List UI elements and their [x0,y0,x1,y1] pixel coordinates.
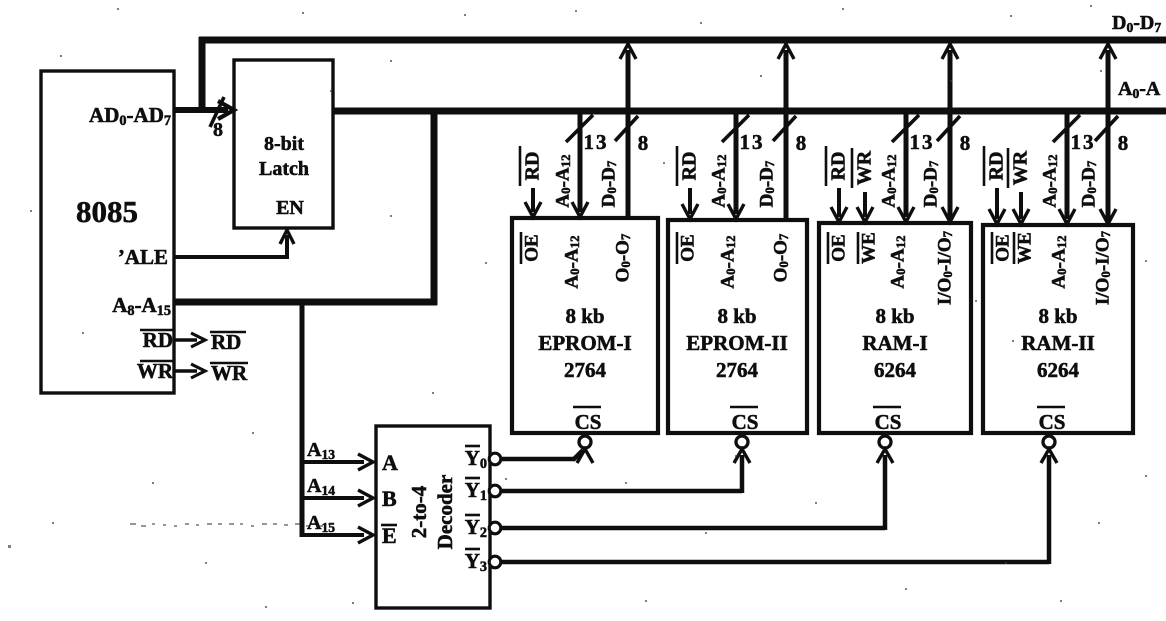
net label A15 [307,512,335,535]
svg-text:EPROM-II: EPROM-II [686,331,788,355]
svg-text:8: 8 [638,131,649,155]
net label A0-A12 wire of RAM-II [1039,154,1060,207]
svg-text:EN: EN [276,197,304,219]
svg-text:8 kb: 8 kb [565,304,604,328]
pin CS inversion bubble of RAM-I [879,436,891,448]
pin WE of RAM-I [858,232,879,264]
svg-text:WE: WE [1014,232,1035,264]
svg-text:RD: RD [522,152,544,181]
wire D0-D7 from EPROM-I to data bus [620,44,636,218]
pin I/O0-I/O7 of RAM-I [934,230,955,305]
svg-text:CS: CS [575,410,602,434]
pin Y1 output label of decoder [465,478,487,504]
wire A0-A12 from address bus into RAM-I [898,114,914,222]
svg-text:RD: RD [211,330,241,354]
svg-text:WR: WR [137,359,174,383]
net label RD of RAM-I [826,146,850,186]
svg-text:OE: OE [828,234,849,261]
pin Y3 inversion bubble [489,556,501,568]
svg-text:AD0-AD7: AD0-AD7 [89,103,171,129]
CPU U1 8085 [41,71,174,393]
pin A0-A12 of RAM-I [887,235,908,288]
svg-text:2-to-4: 2-to-4 [407,485,431,538]
pin A0-A12 of EPROM-I [561,235,582,288]
svg-text:WE: WE [858,232,879,264]
svg-text:8085: 8085 [76,194,138,229]
net label WR of RAM-I [852,148,876,188]
data bus D0-D7 [199,37,1166,113]
wire RD into OE of EPROM-I [525,188,541,217]
bus width slash 13 on A0-A12 of RAM-I [892,115,935,154]
net label RD of RAM-II [984,146,1008,186]
memory chip RAM-II 6264 [983,225,1133,433]
pin Y0 inversion bubble [489,453,501,465]
pin WE of RAM-II [1014,232,1035,264]
svg-text:RAM-II: RAM-II [1021,331,1095,355]
memory chip EPROM-II 2764 [668,220,807,433]
wire WR into WE of RAM-II [1013,192,1029,224]
svg-text:2764: 2764 [716,358,759,382]
svg-text:8: 8 [213,119,223,141]
pin CS of EPROM-II [730,407,758,434]
wire A0-A12 from address bus into EPROM-I [572,114,588,217]
svg-text:O0-O7: O0-O7 [770,233,791,282]
svg-text:CS: CS [1039,410,1066,434]
pin O0-O7 of EPROM-II [770,233,791,282]
svg-text:D0-D7: D0-D7 [598,160,619,207]
svg-text:8: 8 [960,131,971,155]
decoder U3 2-to-4 [376,426,490,608]
svg-text:CS: CS [875,410,902,434]
net label A13 [307,439,335,462]
pin I/O0-I/O7 of RAM-II [1092,230,1113,305]
wire Y3 to CS of RAM-II [500,449,1057,564]
svg-text:I/O0-I/O7: I/O0-I/O7 [1092,230,1113,305]
pin CS of RAM-II [1037,407,1065,434]
pin A0-A12 of EPROM-II [717,235,738,288]
svg-text:RAM-I: RAM-I [862,331,927,355]
wire A13 to decoder input A [300,454,373,470]
svg-text:RD: RD [986,152,1008,181]
svg-text:13: 13 [584,130,609,154]
svg-text:WR: WR [1010,150,1032,185]
wire Y0 to CS of EPROM-I [500,449,593,463]
svg-text:I/O0-I/O7: I/O0-I/O7 [934,230,955,305]
svg-text:8 kb: 8 kb [717,304,756,328]
svg-text:OE: OE [677,234,698,261]
net label D0-D7 wire of RAM-I [920,160,941,207]
svg-text:8 kb: 8 kb [1038,304,1077,328]
pin CS of RAM-I [873,407,901,434]
pin A0-A12 of RAM-II [1048,235,1069,288]
pin Y2 output label of decoder [465,515,487,541]
net label RD of EPROM-I [520,146,544,186]
bus width slash 13 on A0-A12 of EPROM-I [566,115,609,154]
pin OE of RAM-II [992,232,1013,264]
wire AD0-AD7 from 8085 to latch [174,101,234,119]
wire Y1 to CS of EPROM-II [500,449,750,493]
pin OE of EPROM-II [677,232,698,264]
wire A13-A15 feeder from A8-A15 bus to decoder [300,304,305,537]
wire D0-D7 from EPROM-II to data bus [778,44,794,220]
wire riser joining A8-A15 to address bus [431,108,438,305]
net label A14 [307,475,335,498]
pin Y1 inversion bubble [489,485,501,497]
bus width slash 8 on D0-D7 of RAM-II [1095,116,1128,155]
svg-text:8 kb: 8 kb [875,304,914,328]
data bus label D0-D7 [1112,12,1161,35]
net label WR [210,361,248,385]
wire A0-A12 from address bus into EPROM-II [728,114,744,219]
svg-text:Latch: Latch [259,158,309,180]
wire RD into OE of EPROM-II [682,188,698,219]
svg-text:CS: CS [732,410,759,434]
net label RD of EPROM-II [677,146,701,186]
svg-text:RD: RD [143,328,173,352]
net label D0-D7 wire of RAM-II [1078,160,1099,207]
svg-text:A: A [382,450,398,475]
svg-text:RD: RD [828,152,850,181]
svg-text:D0-D7: D0-D7 [1078,160,1099,207]
wire RD into OE of RAM-I [831,188,847,222]
wire D0-D7 from RAM-II to data bus [1100,44,1116,225]
address bus A0-A15 [333,108,1166,115]
pin CS inversion bubble of RAM-II [1043,436,1055,448]
net label WR of RAM-II [1008,148,1032,188]
svg-text:B: B [382,486,397,511]
bus width slash 13 on A0-A12 of EPROM-II [722,115,765,154]
svg-text:O0-O7: O0-O7 [612,233,633,282]
svg-text:2764: 2764 [564,358,607,382]
svg-text:E: E [382,523,397,548]
bus width slash 8 on AD bus [210,97,224,141]
pin OE of RAM-I [828,232,849,264]
net label D0-D7 wire of EPROM-II [756,160,777,207]
svg-text:OE: OE [992,234,1013,261]
pin Y3 output label of decoder [465,549,487,575]
svg-text:Decoder: Decoder [433,475,457,550]
bus width slash 8 on D0-D7 of EPROM-II [773,116,806,155]
memory chip RAM-I 6264 [819,223,971,433]
svg-text:8: 8 [1118,131,1129,155]
svg-text:WR: WR [854,150,876,185]
pin Y2 inversion bubble [489,522,501,534]
svg-text:8: 8 [796,131,807,155]
address bus label A0-A15 (clipped) [1118,78,1161,101]
bus width slash 8 on D0-D7 of EPROM-I [615,116,648,155]
svg-text:D0-D7: D0-D7 [1112,12,1161,35]
wire WR into WE of RAM-I [857,192,873,222]
memory chip EPROM-I 2764 [512,218,658,433]
net label D0-D7 wire of EPROM-I [598,160,619,207]
wire A14 to decoder input B [300,490,373,506]
latch U2 8-bit Latch [234,60,333,228]
wire D0-D7 from RAM-I to data bus [942,44,958,223]
pin CS of EPROM-I [573,407,601,434]
svg-text:’ALE: ’ALE [118,245,168,269]
bus width slash 13 on A0-A12 of RAM-II [1053,115,1096,154]
wire WR output of 8085 [174,364,205,378]
net label RD [210,330,246,354]
pin CS inversion bubble of EPROM-I [579,436,591,448]
net label A0-A12 wire of EPROM-II [708,154,729,207]
wire ALE from 8085 to latch EN [174,230,294,259]
wire RD into OE of RAM-II [989,188,1005,224]
wire Y2 to CS of RAM-I [500,449,893,530]
svg-text:8-bit: 8-bit [264,133,304,155]
svg-text:WR: WR [211,361,248,385]
wire A15 to decoder input E [300,527,373,543]
wire RD output of 8085 [174,333,205,347]
bus width slash 8 on D0-D7 of RAM-I [937,116,970,155]
pin Y0 output label of decoder [465,446,487,472]
pin OE of EPROM-I [521,232,542,264]
svg-text:13: 13 [1071,130,1096,154]
svg-text:D0-D7: D0-D7 [756,160,777,207]
svg-text:6264: 6264 [874,358,917,382]
net label A0-A12 wire of EPROM-I [552,154,573,207]
svg-text:D0-D7: D0-D7 [920,160,941,207]
svg-text:A0-A: A0-A [1118,78,1161,101]
svg-text:EPROM-I: EPROM-I [538,331,631,355]
svg-text:13: 13 [740,130,765,154]
svg-text:RD: RD [679,152,701,181]
svg-text:13: 13 [910,130,935,154]
wire A8-A15 bus from 8085 [174,299,437,306]
pin O0-O7 of EPROM-I [612,233,633,282]
wire A0-A12 from address bus into RAM-II [1059,114,1075,224]
svg-text:OE: OE [521,234,542,261]
net label A0-A12 wire of RAM-I [878,154,899,207]
pin CS inversion bubble of EPROM-II [736,436,748,448]
svg-text:6264: 6264 [1037,358,1080,382]
